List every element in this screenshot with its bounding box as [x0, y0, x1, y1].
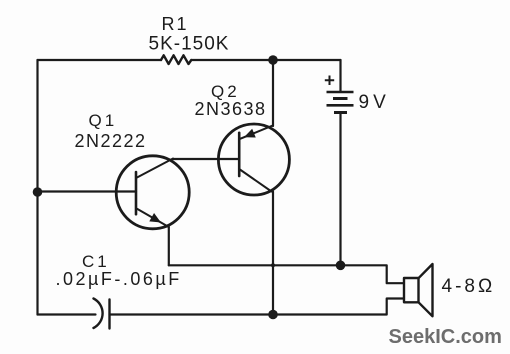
- svg-text:R1: R1: [162, 14, 189, 34]
- svg-text:.02µF-.06µF: .02µF-.06µF: [56, 269, 182, 289]
- wire battery negative drop: [339, 113, 341, 266]
- wire Q2 collector drop: [272, 192, 274, 315]
- svg-text:5K-150K: 5K-150K: [149, 34, 230, 55]
- svg-text:2N3638: 2N3638: [195, 99, 267, 119]
- battery plus sign: [325, 76, 334, 86]
- node wire crossing mark: [271, 263, 275, 267]
- node junction dot battery negative on emitter rail: [336, 261, 346, 271]
- wire bottom rail left: [38, 313, 96, 315]
- transistor Q1: [116, 156, 189, 229]
- svg-text:2N2222: 2N2222: [75, 131, 147, 151]
- svg-text:Q1: Q1: [89, 111, 118, 130]
- wire top rail right: [191, 59, 340, 61]
- wire bottom rail to speaker bottom: [110, 299, 404, 315]
- wire left rail: [36, 60, 38, 315]
- wire Q1 emitter drop: [168, 227, 170, 265]
- wire battery positive drop: [339, 60, 341, 92]
- svg-text:SeekIC.com: SeekIC.com: [389, 326, 502, 348]
- wire Q2 emitter riser: [272, 60, 274, 126]
- wire top rail left: [38, 59, 162, 61]
- wire emitter rail to speaker top: [169, 265, 404, 283]
- resistor R1: [161, 55, 191, 64]
- capacitor C1: [94, 299, 110, 329]
- battery B1 9V: [325, 76, 354, 113]
- wire Q1 base: [38, 190, 137, 192]
- node junction dot top (Q2 emitter / supply): [268, 55, 278, 65]
- transistor Q2: [218, 124, 289, 195]
- svg-text:4-8Ω: 4-8Ω: [442, 276, 496, 297]
- svg-text:9V: 9V: [359, 92, 390, 113]
- wire Q1 collector to Q2 base: [173, 158, 239, 160]
- node junction dot left (Q1 base): [33, 187, 43, 197]
- speaker LS1: [404, 264, 433, 316]
- node junction dot Q2 collector on bottom rail: [268, 310, 278, 320]
